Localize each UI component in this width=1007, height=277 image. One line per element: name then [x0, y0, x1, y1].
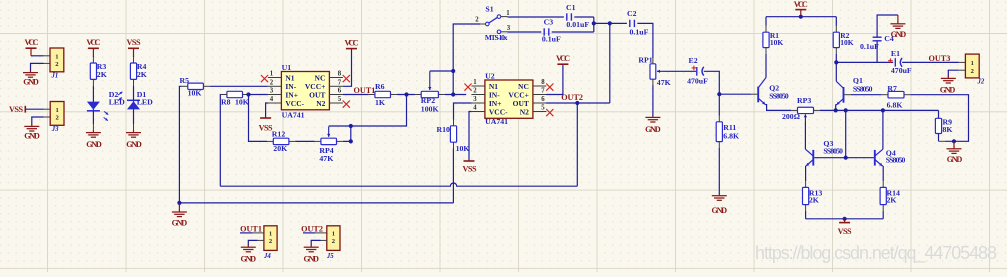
svg-text:7: 7 — [338, 80, 342, 87]
svg-text:R10: R10 — [436, 125, 450, 134]
svg-text:UA741: UA741 — [485, 117, 508, 126]
svg-text:U1: U1 — [282, 63, 292, 72]
wire merge to OUT2 column — [594, 22, 610, 24]
svg-text:C3: C3 — [544, 17, 554, 26]
wire S1 node down to RP2 terminal — [452, 71, 454, 95]
wire R9 bottom to junction — [938, 134, 940, 142]
capacitor C2 — [629, 20, 631, 27]
svg-text:OUT2: OUT2 — [561, 93, 583, 102]
connector J3 — [44, 108, 51, 110]
svg-text:SS8050: SS8050 — [823, 147, 843, 156]
ground below J5 — [310, 245, 312, 247]
wire rail to R1 — [765, 17, 767, 26]
svg-text:R5: R5 — [180, 76, 190, 85]
svg-text:NC: NC — [315, 73, 326, 82]
wire R13 to VSS rail — [805, 205, 807, 211]
svg-text:GND: GND — [126, 140, 142, 149]
node OUT2 feedback junction — [575, 101, 579, 105]
wire U1 pin7 to VCC — [343, 49, 352, 87]
ground below J4 — [247, 245, 249, 247]
resistor R12 — [267, 140, 273, 142]
svg-text:SS8050: SS8050 — [886, 156, 906, 165]
svg-text:1: 1 — [332, 231, 335, 238]
svg-text:470uF: 470uF — [891, 66, 912, 75]
ground at GND rail — [178, 203, 180, 211]
wire Q2 emitter to RP3 — [765, 105, 791, 111]
wire rail to R2 — [835, 17, 837, 26]
wire S1 pin2 down to RP2 node — [453, 24, 480, 71]
wire VSS to J3 pin1 — [25, 108, 43, 110]
wire U2 pin4 to VSS — [469, 112, 471, 161]
resistor R9 — [935, 118, 941, 133]
ground below R11 — [718, 193, 720, 195]
node RP2 wiper / S1 junction — [451, 69, 455, 73]
svg-text:10K: 10K — [770, 38, 784, 47]
svg-text:MTS-10x: MTS-10x — [485, 33, 508, 42]
ground below RP1 — [652, 115, 654, 117]
resistor R4 — [130, 63, 136, 79]
svg-text:6.8K: 6.8K — [887, 101, 903, 110]
potentiometer RP2 — [421, 91, 438, 97]
connector J5 — [327, 226, 340, 251]
wire S1 pin1 to C1 — [501, 16, 508, 18]
transistor Q3 — [812, 150, 814, 166]
capacitor C3 — [543, 28, 545, 35]
wire OUT1 to J4 pin1 — [240, 232, 253, 234]
wire RP2 right terminal — [438, 94, 444, 96]
node C2 line junction — [608, 21, 612, 25]
svg-text:0.1uF: 0.1uF — [630, 28, 649, 37]
wire D1 to ground — [133, 109, 135, 124]
connector J4 — [264, 226, 277, 251]
svg-text:200Ω: 200Ω — [782, 112, 800, 121]
svg-text:VSS: VSS — [463, 164, 477, 173]
no-connect X U2 pin8 — [546, 84, 553, 91]
svg-text:UA741: UA741 — [282, 111, 305, 120]
wire S1 pin3 to C3 — [501, 31, 508, 33]
svg-text:VCC: VCC — [345, 38, 359, 47]
svg-text:47K: 47K — [657, 78, 671, 87]
wire OUT2 down to feedback rail — [576, 103, 578, 186]
svg-text:J2: J2 — [977, 78, 985, 85]
svg-text:GND: GND — [645, 125, 661, 134]
node VSS junction — [843, 217, 847, 221]
node merge junction — [592, 21, 596, 25]
svg-text:GND: GND — [172, 218, 188, 227]
svg-text:10K: 10K — [188, 89, 202, 98]
wire C3 to corner — [552, 31, 594, 33]
potentiometer RP4 — [321, 138, 337, 144]
resistor R11 — [716, 122, 722, 142]
svg-text:E2: E2 — [689, 56, 698, 65]
resistor R10 — [453, 120, 455, 126]
wire U2 pin7 to VCC — [546, 64, 563, 94]
svg-text:3: 3 — [270, 88, 274, 95]
node R6 right junction — [404, 92, 408, 96]
power port VSS (U1) — [260, 117, 271, 119]
svg-text:47K: 47K — [319, 154, 333, 163]
svg-text:R8 10K: R8 10K — [221, 98, 249, 107]
svg-text:10K: 10K — [456, 144, 470, 153]
no-connect X U2 pin1 — [464, 84, 471, 91]
svg-text:C1: C1 — [566, 3, 576, 12]
node R8/U1 pin3 junction — [246, 92, 250, 96]
svg-text:3: 3 — [507, 25, 511, 32]
wire R5 left to GND rail — [182, 85, 188, 87]
no-connect X U2 pin5 — [546, 109, 553, 116]
wire E2 to Q2 base node — [704, 71, 720, 94]
wire R2 to Q1 collector — [835, 48, 837, 54]
svg-text:8: 8 — [338, 71, 342, 78]
resistor R3 — [90, 63, 96, 79]
svg-text:2K: 2K — [887, 195, 897, 204]
wire RP2 wiper to S1 node — [430, 70, 453, 72]
wire J4 pin2 to ground — [258, 239, 264, 241]
wire VCC rail — [766, 16, 836, 18]
wire R4 to D1 — [133, 79, 135, 86]
wire base node up to emitter rail — [845, 110, 847, 157]
svg-text:OUT1: OUT1 — [354, 86, 376, 95]
transistor Q4 — [874, 150, 876, 166]
resistor R7 — [888, 91, 904, 98]
svg-text:5: 5 — [338, 96, 342, 103]
wire GND rail to R10 column — [179, 202, 453, 204]
wire VSS rail — [806, 218, 884, 220]
wire Q4 collector up to rail — [882, 110, 884, 149]
wire VCC to R3 — [92, 56, 94, 57]
svg-text:GND: GND — [24, 131, 40, 140]
capacitor C4 — [873, 36, 882, 38]
LED D2 — [87, 102, 100, 110]
wire feedback rail (OUT2 to R8) with hop — [220, 183, 577, 186]
svg-text:2: 2 — [473, 88, 477, 95]
node Q2 base junction — [717, 92, 721, 96]
wire VCC to J1 pin1 — [31, 55, 44, 57]
resistor R6 — [375, 91, 391, 97]
wire C1 to corner — [574, 16, 594, 18]
wire U2 pin3 to R10 — [454, 103, 472, 120]
svg-text:OUT1: OUT1 — [240, 224, 262, 233]
wire RP4 right terminal up to wiper line — [337, 140, 343, 142]
wire RP4 wiper loop — [329, 95, 407, 127]
wire Q1 emitter down to rail — [835, 105, 838, 111]
wire Q3 base to base node — [814, 157, 846, 159]
wire node to Q2 base — [719, 93, 751, 95]
wire D2 to ground — [92, 111, 94, 124]
svg-text:1: 1 — [55, 107, 58, 114]
wire R1 to Q2 collector — [765, 48, 767, 54]
svg-text:R7: R7 — [887, 84, 897, 93]
svg-text:GND: GND — [241, 254, 257, 263]
wire OUT2 up to C2 line — [609, 23, 611, 103]
wire R14 to VSS rail — [882, 205, 884, 211]
svg-text:RP1: RP1 — [638, 55, 652, 64]
svg-text:2K: 2K — [137, 70, 147, 79]
node Q1 emitter junction — [834, 108, 838, 112]
svg-text:GND: GND — [303, 254, 319, 263]
wire RP3 right to emitter rail — [814, 109, 820, 111]
svg-text:N2: N2 — [316, 99, 325, 108]
svg-text:VSS: VSS — [838, 227, 852, 236]
wire junction down to R12 — [249, 95, 268, 142]
wire R8 right to U1 pin3 — [243, 94, 249, 96]
power port VCC (U1) — [346, 48, 357, 50]
svg-text:20K: 20K — [273, 144, 287, 153]
no-connect X U1 pin1 — [261, 75, 268, 82]
node RP4 right junction — [349, 139, 353, 143]
capacitor E1 (electrolytic) — [836, 61, 893, 63]
wire Q3 emitter down to R13 — [805, 165, 807, 167]
svg-text:VCC-: VCC- — [489, 107, 508, 116]
resistor R2 — [833, 32, 839, 47]
wire J2 pin2 to ground — [959, 69, 966, 71]
ground below J3 — [31, 124, 33, 126]
LED D1 — [127, 101, 140, 109]
node E1 tap junction — [834, 60, 838, 64]
svg-text:10K: 10K — [840, 38, 854, 47]
svg-text:RP3: RP3 — [797, 96, 811, 105]
wire J1 pin2 to ground — [31, 63, 44, 70]
resistor R1 — [763, 32, 769, 47]
wire U1 pin4 to VSS — [266, 103, 268, 118]
svg-text:3: 3 — [473, 96, 477, 103]
svg-text:2: 2 — [270, 80, 274, 87]
resistor R14 — [880, 187, 886, 204]
wire C1/C3 merge vertical — [593, 17, 595, 32]
no-connect X U1 pin8 — [343, 75, 350, 82]
wire R5 right to U1 pin2 — [203, 85, 209, 87]
potentiometer RP1 — [652, 58, 654, 64]
ground above C4 — [897, 15, 899, 22]
wire R3 to D2 — [92, 79, 94, 86]
svg-text:5: 5 — [541, 105, 545, 112]
svg-text:R12: R12 — [272, 129, 286, 138]
svg-text:470uF: 470uF — [687, 76, 708, 85]
wire C2 to RP1 — [637, 23, 653, 58]
svg-text:https://blog.csdn.net/qq_44705: https://blog.csdn.net/qq_44705488 — [755, 243, 997, 264]
svg-text:VCC: VCC — [25, 38, 39, 47]
svg-text:SS8050: SS8050 — [853, 85, 873, 94]
capacitor C1 — [566, 13, 568, 20]
potentiometer RP3 — [798, 107, 814, 113]
wire R12 to RP4 — [289, 140, 295, 142]
svg-text:100K: 100K — [421, 104, 439, 113]
svg-text:R6: R6 — [375, 82, 385, 91]
svg-text:GND: GND — [940, 85, 956, 94]
wire rail corner down to R9 — [938, 110, 940, 118]
svg-text:GND: GND — [23, 78, 39, 87]
svg-text:VCC: VCC — [556, 54, 570, 63]
wire R6 to RP2 — [391, 94, 397, 96]
svg-text:VSS: VSS — [9, 105, 23, 114]
connector J1 — [44, 55, 51, 57]
ground below J2 — [947, 76, 949, 78]
svg-text:N1: N1 — [285, 73, 294, 82]
node base column junction — [844, 108, 848, 112]
resistor R8 — [227, 91, 243, 97]
wire OUT2 to J5 pin1 — [303, 232, 315, 234]
ground below J1 — [30, 70, 32, 72]
svg-text:1: 1 — [55, 53, 58, 60]
svg-text:E1: E1 — [891, 49, 900, 58]
capacitor E2 (electrolytic) — [696, 67, 698, 76]
svg-text:J4: J4 — [263, 253, 271, 260]
wire Q1 base to R7 — [844, 94, 851, 96]
svg-text:1: 1 — [506, 10, 510, 17]
svg-text:GND: GND — [891, 30, 907, 39]
no-connect X U1 pin5 — [343, 101, 350, 108]
ground below D1 — [133, 130, 135, 132]
wire J5 pin2 to ground — [321, 239, 327, 241]
svg-text:J1: J1 — [51, 73, 59, 80]
svg-text:OUT2: OUT2 — [301, 224, 323, 233]
svg-text:2K: 2K — [809, 195, 819, 204]
svg-text:0.1uF: 0.1uF — [860, 42, 879, 51]
svg-text:GND: GND — [712, 206, 728, 215]
node GND rail junction — [177, 201, 181, 205]
svg-text:VCC: VCC — [794, 0, 808, 9]
node VCC rail junction — [799, 15, 803, 19]
svg-text:0.1uF: 0.1uF — [542, 35, 561, 44]
wire E1 to J2 pin1 — [902, 61, 959, 63]
svg-text:1K: 1K — [375, 98, 385, 107]
power port VSS (U2) — [464, 160, 475, 162]
svg-text:R11: R11 — [723, 123, 736, 132]
resistor R5 — [188, 83, 204, 89]
node R9/R7 ground junction — [952, 139, 956, 143]
svg-text:4: 4 — [473, 105, 477, 112]
svg-text:2K: 2K — [97, 70, 107, 79]
svg-text:0.01uF: 0.01uF — [566, 20, 589, 29]
svg-text:8: 8 — [541, 79, 545, 86]
ground below R9 — [953, 141, 955, 147]
svg-text:J5: J5 — [326, 253, 334, 260]
node Q4 collector junction — [881, 108, 885, 112]
wire R8 left down to feedback rail — [221, 94, 227, 96]
connector J2 — [965, 54, 979, 78]
svg-text:4: 4 — [270, 96, 274, 103]
svg-text:VSS: VSS — [259, 124, 273, 133]
wire J3 pin2 to ground — [32, 117, 44, 125]
wire VSS to R4 — [133, 56, 135, 57]
node Q3/Q4 base junction — [844, 156, 848, 160]
wire RP1 wiper to E2 — [665, 70, 697, 72]
power port VSS (output stage) — [844, 219, 846, 223]
svg-text:VCC: VCC — [86, 38, 100, 47]
wire R11 to ground — [718, 142, 720, 148]
node RP2 right junction — [451, 92, 455, 96]
transistor Q2 — [757, 87, 759, 103]
svg-text:C2: C2 — [627, 9, 637, 18]
wire RP3 wiper down to Q3 collector — [804, 122, 806, 150]
svg-text:1: 1 — [971, 60, 974, 67]
svg-text:6.8K: 6.8K — [723, 132, 739, 141]
svg-text:6: 6 — [338, 88, 342, 95]
wire RP1 bottom to ground — [652, 79, 654, 85]
svg-text:LED: LED — [137, 97, 153, 106]
svg-text:VSS: VSS — [127, 38, 141, 47]
wire C4 bottom to E1 line — [876, 41, 878, 63]
svg-text:GND: GND — [947, 155, 963, 164]
svg-text:1: 1 — [269, 231, 272, 238]
wire Q4 base to base node — [846, 157, 874, 159]
svg-text:U2: U2 — [485, 72, 495, 81]
resistor R13 — [803, 187, 809, 204]
wire node down to R11 — [718, 94, 720, 115]
svg-text:7: 7 — [541, 88, 545, 95]
wire Q4 emitter down to R14 — [881, 165, 884, 167]
svg-text:2: 2 — [475, 16, 479, 23]
svg-text:N2: N2 — [520, 107, 529, 116]
svg-text:LED: LED — [109, 97, 125, 106]
power port VCC (U2) — [557, 63, 568, 65]
svg-text:6: 6 — [541, 96, 545, 103]
wire U1 pin6 to R6 — [343, 94, 369, 96]
svg-text:GND: GND — [86, 140, 102, 149]
wire R7 right down to R9 bottom — [904, 94, 910, 96]
svg-text:8K: 8K — [943, 125, 953, 134]
svg-text:OUT3: OUT3 — [929, 54, 951, 63]
wire R10 down to GND rail (crosses feedback with hop) — [453, 142, 455, 148]
svg-text:1: 1 — [270, 71, 274, 78]
svg-text:J3: J3 — [51, 126, 59, 133]
wire C4 top to ground — [877, 15, 898, 37]
svg-text:S1: S1 — [485, 4, 493, 13]
svg-text:SS8050: SS8050 — [769, 91, 789, 100]
wire to C2 — [610, 22, 627, 24]
ground below D2 — [92, 130, 94, 132]
svg-text:1: 1 — [473, 79, 477, 86]
transistor Q1 — [843, 87, 845, 103]
svg-text:VCC-: VCC- — [285, 99, 304, 108]
wire U2 pin6 (OUT2) — [546, 102, 610, 104]
